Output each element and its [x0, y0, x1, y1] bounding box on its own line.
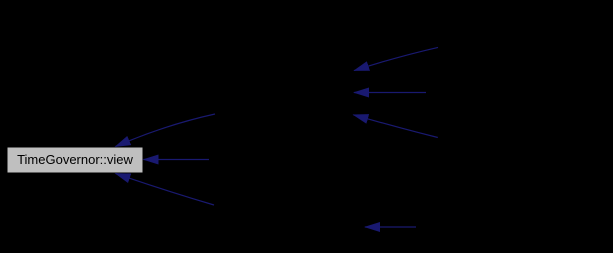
- wire edge caller3 -> mid (bottom right diagonal): [353, 115, 437, 138]
- wire edge caller1 -> mid (top right diagonal): [354, 47, 438, 70]
- wire edge mid2 -> view (horizontal): [144, 159, 210, 161]
- node TimeGovernor::view: [7, 147, 143, 173]
- wire edge mid1 -> view (upper diagonal): [116, 114, 216, 147]
- svg-text:TimeGovernor::view: TimeGovernor::view: [17, 152, 133, 167]
- wire edge caller2 -> mid (middle horizontal): [354, 92, 426, 94]
- wire edge mid3 -> view (lower diagonal): [116, 173, 215, 205]
- wire edge bottom caller: [365, 226, 416, 228]
